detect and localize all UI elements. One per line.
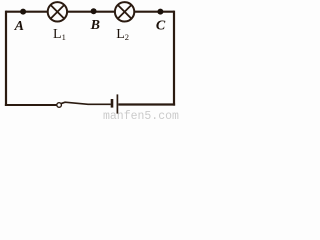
wire: battery to bottom right corner	[118, 103, 175, 105]
wire: right vertical	[173, 11, 175, 106]
battery positive plate (long thin)	[116, 94, 118, 113]
svg-text:A: A	[14, 19, 24, 34]
battery negative plate (short thick)	[111, 99, 114, 108]
node C	[157, 9, 163, 15]
wire: left vertical	[5, 11, 7, 106]
svg-text:B: B	[90, 18, 100, 33]
lamp L1	[48, 2, 67, 21]
svg-text:C: C	[156, 18, 166, 33]
node B	[91, 8, 97, 14]
wire: top middle segment (L1 to L2 through node B)	[67, 11, 115, 13]
node A	[20, 9, 26, 15]
svg-text:manfen5.com: manfen5.com	[103, 110, 179, 121]
switch pivot circle	[57, 103, 62, 108]
wire: top left segment (corner to lamp L1)	[6, 11, 48, 13]
wire: bottom left segment (corner to switch pivot)	[5, 104, 57, 106]
lamp L2	[115, 2, 134, 21]
wire: top right segment (L2 to corner)	[134, 11, 174, 13]
switch blade and wire to battery	[61, 102, 111, 104]
